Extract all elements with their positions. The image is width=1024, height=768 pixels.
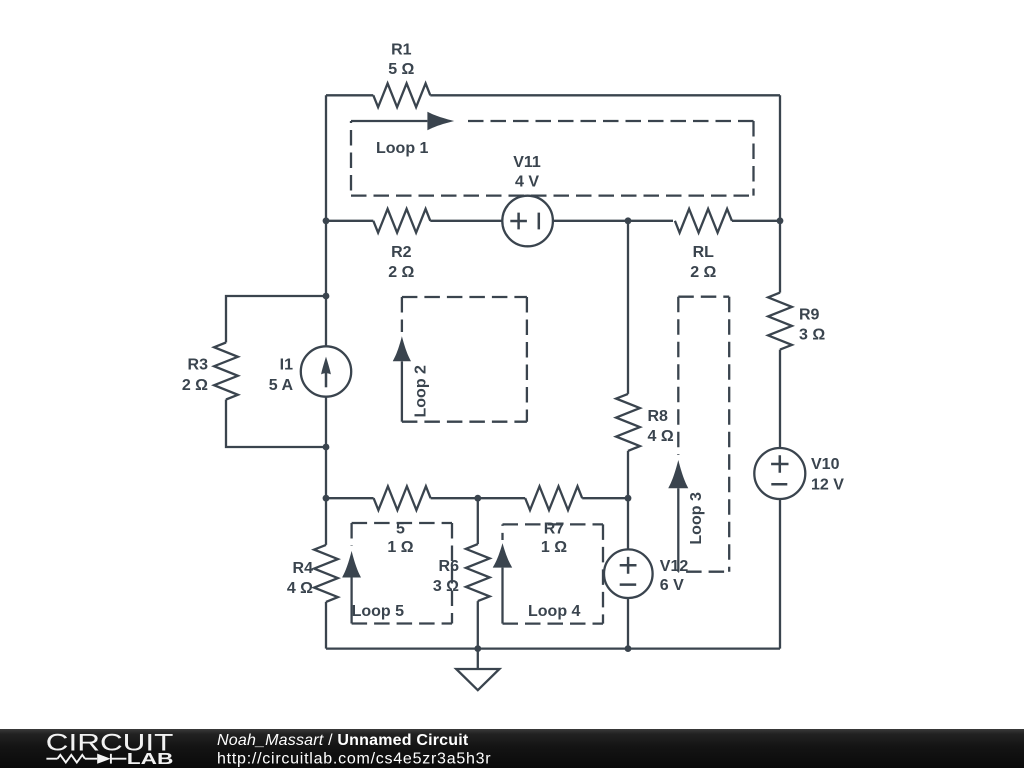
svg-text:5: 5 (396, 521, 405, 538)
svg-text:12 V: 12 V (811, 477, 844, 494)
svg-text:I1: I1 (280, 357, 293, 374)
svg-text:Loop 3: Loop 3 (688, 492, 705, 545)
svg-text:R4: R4 (293, 560, 314, 577)
svg-text:4 Ω: 4 Ω (648, 428, 674, 445)
svg-text:http://circuitlab.com/cs4e5zr3: http://circuitlab.com/cs4e5zr3a5h3r (217, 751, 491, 768)
svg-text:V11: V11 (513, 154, 541, 171)
svg-text:Loop 2: Loop 2 (413, 365, 430, 418)
svg-text:V12: V12 (660, 558, 689, 575)
svg-text:R9: R9 (799, 306, 820, 323)
svg-text:5 Ω: 5 Ω (388, 61, 414, 78)
svg-text:R3: R3 (188, 357, 209, 374)
svg-text:2 Ω: 2 Ω (182, 377, 208, 394)
svg-text:4 V: 4 V (515, 174, 539, 191)
svg-text:LAB: LAB (127, 751, 174, 768)
svg-text:Noah_Massart / Unnamed Circuit: Noah_Massart / Unnamed Circuit (217, 732, 469, 749)
svg-text:2 Ω: 2 Ω (388, 264, 414, 281)
svg-text:1 Ω: 1 Ω (541, 539, 567, 556)
svg-text:R6: R6 (439, 558, 460, 575)
svg-text:5 A: 5 A (269, 377, 294, 394)
svg-text:6 V: 6 V (660, 577, 684, 594)
svg-text:2 Ω: 2 Ω (690, 264, 716, 281)
svg-text:Loop 4: Loop 4 (528, 603, 581, 620)
svg-text:R7: R7 (544, 521, 565, 538)
svg-text:RL: RL (693, 244, 715, 261)
svg-text:R1: R1 (391, 42, 412, 59)
svg-text:1 Ω: 1 Ω (387, 539, 413, 556)
svg-text:V10: V10 (811, 456, 840, 473)
svg-text:4 Ω: 4 Ω (287, 580, 313, 597)
svg-text:Loop 1: Loop 1 (376, 140, 429, 157)
svg-text:Loop 5: Loop 5 (352, 603, 405, 620)
svg-text:3 Ω: 3 Ω (799, 326, 825, 343)
svg-text:3 Ω: 3 Ω (433, 578, 459, 595)
svg-text:R2: R2 (391, 244, 412, 261)
svg-text:R8: R8 (648, 408, 669, 425)
